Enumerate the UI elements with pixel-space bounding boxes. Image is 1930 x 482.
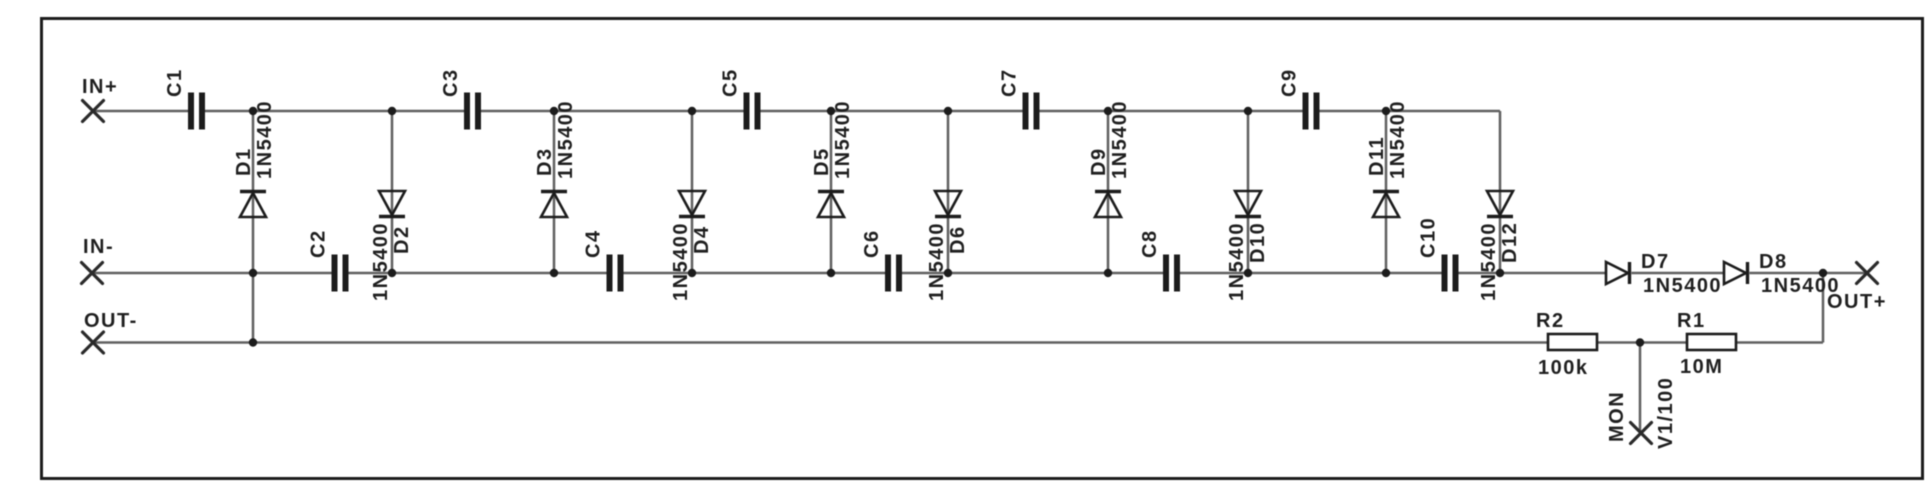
svg-text:C7: C7 (999, 68, 1021, 97)
svg-text:1N5400: 1N5400 (926, 222, 948, 301)
svg-text:1N5400: 1N5400 (1643, 275, 1722, 297)
svg-text:R1: R1 (1677, 310, 1706, 332)
svg-text:D5: D5 (811, 147, 833, 176)
svg-text:D4: D4 (691, 225, 713, 254)
svg-text:1N5400: 1N5400 (1761, 275, 1840, 297)
svg-text:R2: R2 (1536, 310, 1565, 332)
svg-text:D6: D6 (947, 225, 969, 254)
svg-text:D9: D9 (1088, 147, 1110, 176)
svg-text:1N5400: 1N5400 (370, 222, 392, 301)
svg-text:1N5400: 1N5400 (254, 100, 276, 179)
svg-text:C9: C9 (1279, 68, 1301, 97)
svg-text:D3: D3 (534, 147, 556, 176)
svg-text:1N5400: 1N5400 (1226, 222, 1248, 301)
svg-text:D8: D8 (1759, 251, 1788, 273)
svg-text:IN-: IN- (83, 236, 114, 258)
svg-text:C8: C8 (1139, 229, 1161, 258)
svg-text:10M: 10M (1680, 356, 1723, 378)
svg-text:V1/100: V1/100 (1655, 377, 1677, 449)
svg-text:D1: D1 (233, 147, 255, 176)
svg-text:D11: D11 (1366, 136, 1388, 176)
svg-text:C1: C1 (164, 68, 186, 97)
svg-text:C3: C3 (440, 68, 462, 97)
svg-text:OUT-: OUT- (84, 310, 138, 332)
svg-text:C4: C4 (583, 229, 605, 258)
svg-text:C2: C2 (308, 229, 330, 258)
svg-text:MON: MON (1606, 391, 1628, 442)
svg-text:1N5400: 1N5400 (1109, 100, 1131, 179)
svg-text:IN+: IN+ (82, 76, 118, 98)
svg-text:1N5400: 1N5400 (832, 100, 854, 179)
svg-text:D10: D10 (1247, 222, 1269, 263)
svg-text:1N5400: 1N5400 (1387, 100, 1409, 179)
svg-text:1N5400: 1N5400 (555, 100, 577, 179)
svg-text:D12: D12 (1499, 222, 1521, 263)
svg-text:C10: C10 (1418, 217, 1440, 258)
svg-text:D7: D7 (1641, 251, 1670, 273)
svg-text:100k: 100k (1538, 357, 1589, 379)
svg-text:C6: C6 (861, 229, 883, 258)
svg-text:1N5400: 1N5400 (1478, 222, 1500, 301)
svg-text:D2: D2 (391, 225, 413, 254)
svg-text:C5: C5 (720, 68, 742, 97)
svg-text:1N5400: 1N5400 (670, 222, 692, 301)
